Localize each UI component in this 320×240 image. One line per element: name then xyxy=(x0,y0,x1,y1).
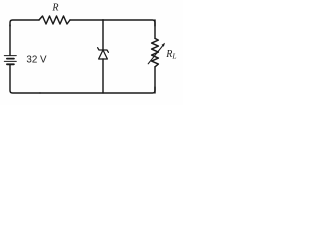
svg-text:R: R xyxy=(51,3,58,14)
svg-text:32 V: 32 V xyxy=(26,54,47,65)
wire middle upper segment xyxy=(102,20,104,50)
wire left upper segment xyxy=(9,25,11,55)
label RL xyxy=(165,49,176,61)
label R xyxy=(51,3,58,14)
wire top-left segment xyxy=(10,20,39,26)
wire left lower segment xyxy=(10,65,40,93)
wire top-middle segment xyxy=(70,19,103,21)
wire right upper segment xyxy=(154,20,156,38)
resistor R xyxy=(39,16,70,24)
wire middle lower segment xyxy=(102,59,104,93)
svg-text:R: R xyxy=(165,49,172,60)
wire bottom segment xyxy=(40,87,155,93)
zener diode D1 xyxy=(98,48,109,59)
variable resistor RL xyxy=(148,38,165,66)
svg-text:L: L xyxy=(171,51,176,60)
wire right lower segment xyxy=(154,67,156,93)
label 32 V xyxy=(26,54,47,65)
wire top-right segment xyxy=(103,20,155,26)
node top junction xyxy=(102,19,104,21)
battery B1 32 V xyxy=(4,56,16,65)
